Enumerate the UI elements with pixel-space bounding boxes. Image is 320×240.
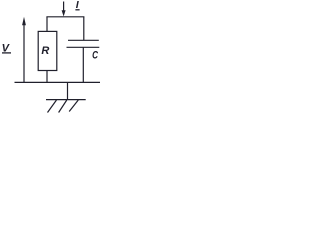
label V underline bbox=[2, 52, 11, 54]
wire right drop to capacitor top plate bbox=[83, 17, 85, 41]
capacitor C top plate bbox=[68, 39, 99, 41]
ground hatch 3 bbox=[69, 100, 78, 112]
wire ground tap bbox=[67, 82, 69, 99]
wire top horizontal bbox=[46, 16, 84, 18]
ground hatch 2 bbox=[59, 100, 67, 113]
svg-text:C: C bbox=[92, 50, 99, 63]
capacitor C bottom plate bbox=[67, 46, 100, 48]
svg-text:R: R bbox=[41, 45, 49, 57]
ground hatch 1 bbox=[48, 100, 57, 113]
current arrow I head (down) bbox=[62, 10, 66, 16]
resistor R (box) bbox=[38, 31, 57, 70]
wire capacitor bottom plate to bottom rail bbox=[82, 47, 84, 82]
voltage arrow V shaft bbox=[23, 24, 25, 82]
wire resistor bottom to bottom rail bbox=[46, 71, 48, 83]
ground bar bbox=[46, 99, 86, 101]
label I underline bbox=[75, 9, 79, 11]
current arrow I shaft bbox=[63, 2, 65, 12]
voltage arrow V head (up) bbox=[22, 17, 26, 26]
wire left drop to resistor top bbox=[46, 17, 48, 32]
wire bottom rail bbox=[15, 81, 101, 83]
